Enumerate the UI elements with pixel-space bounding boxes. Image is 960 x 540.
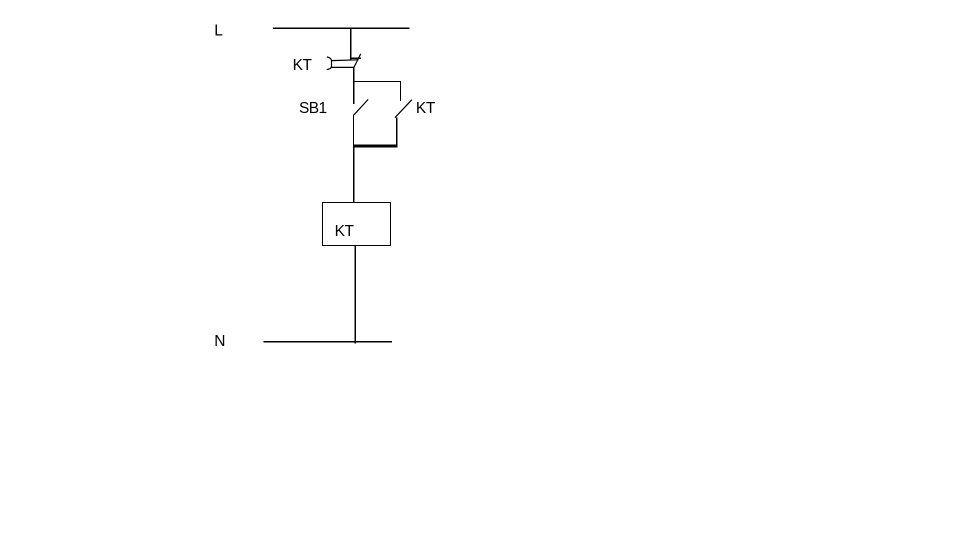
timed contact KT (delay NC contact of time relay): delay arc <box>327 57 332 70</box>
svg-text:KT: KT <box>416 100 436 117</box>
wire from junction down to coil KT <box>353 146 355 202</box>
wire from coil KT down to N bus <box>354 246 356 344</box>
pushbutton contact SB1: moving blade <box>354 99 368 114</box>
wire from L bus down to KT timed contact <box>350 28 352 60</box>
wire right branch upper vertical <box>399 82 401 101</box>
timed contact KT: lower cup line <box>331 66 355 68</box>
timed contact KT: upper cup line <box>332 59 359 62</box>
wire junction tick right end <box>396 144 398 147</box>
auxiliary contact KT: lower terminal wire <box>396 118 398 146</box>
svg-text:KT: KT <box>293 57 313 74</box>
wire N bus (bottom horizontal neutral line) <box>264 341 393 343</box>
svg-text:N: N <box>214 333 225 350</box>
wire L bus (top horizontal supply line) <box>273 27 410 29</box>
coil KT (time relay coil box) <box>323 203 391 246</box>
wire from timed contact down to parallel branch <box>353 67 355 104</box>
svg-text:KT: KT <box>335 223 355 240</box>
svg-text:L: L <box>214 23 223 40</box>
wire branch to parallel KT contact (horizontal) <box>354 81 401 83</box>
svg-text:SB1: SB1 <box>299 100 327 117</box>
timed contact KT: fixed contact bar <box>350 57 360 59</box>
timed contact KT: moving blade <box>354 54 361 68</box>
auxiliary contact KT: moving blade <box>395 100 412 118</box>
pushbutton contact SB1: lower terminal wire <box>352 115 354 147</box>
wire joining parallel branches (thick bottom bar) <box>353 145 398 148</box>
